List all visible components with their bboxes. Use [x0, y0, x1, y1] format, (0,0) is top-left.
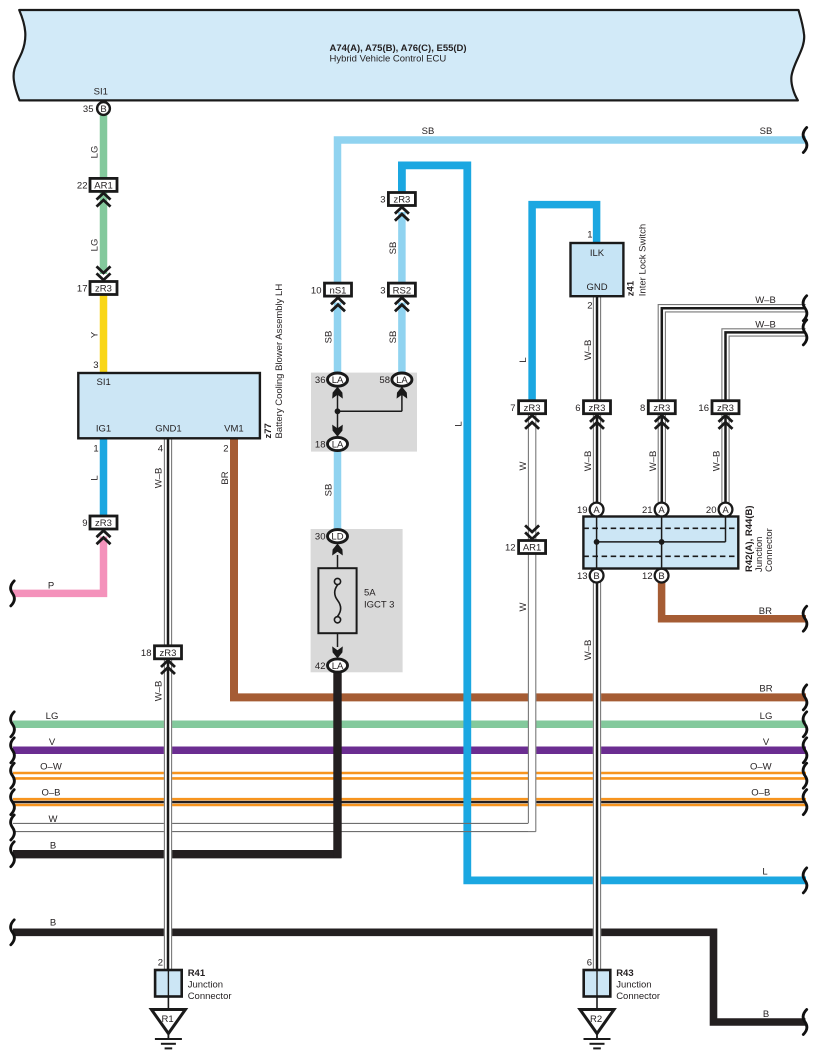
- svg-text:2: 2: [158, 958, 163, 969]
- svg-text:W–B: W–B: [712, 451, 723, 472]
- svg-text:7: 7: [510, 403, 515, 414]
- svg-text:zR3: zR3: [95, 284, 112, 295]
- svg-text:BR: BR: [759, 606, 772, 617]
- svg-text:AR1: AR1: [94, 181, 112, 192]
- svg-text:R43: R43: [616, 968, 633, 979]
- svg-text:IGCT 3: IGCT 3: [364, 600, 394, 611]
- svg-text:12: 12: [642, 571, 653, 582]
- svg-text:W: W: [518, 602, 529, 611]
- svg-text:20: 20: [706, 505, 717, 516]
- svg-text:zR3: zR3: [95, 518, 112, 529]
- svg-text:LG: LG: [760, 711, 773, 722]
- svg-text:18: 18: [315, 439, 326, 450]
- svg-text:B: B: [50, 918, 56, 929]
- svg-text:16: 16: [698, 403, 709, 414]
- svg-text:z77: z77: [263, 423, 274, 438]
- svg-text:W–B: W–B: [583, 340, 594, 361]
- svg-text:SB: SB: [324, 484, 335, 497]
- svg-text:LG: LG: [90, 146, 101, 159]
- svg-text:LD: LD: [331, 532, 343, 543]
- svg-text:6: 6: [587, 958, 592, 969]
- svg-text:W: W: [49, 814, 58, 825]
- svg-text:B: B: [658, 571, 664, 582]
- svg-text:1: 1: [587, 230, 592, 241]
- svg-text:SB: SB: [388, 242, 399, 255]
- svg-text:2: 2: [587, 301, 592, 312]
- svg-text:z41: z41: [626, 280, 637, 296]
- svg-text:LA: LA: [332, 661, 344, 672]
- svg-text:3: 3: [380, 285, 385, 296]
- svg-text:B: B: [50, 841, 56, 852]
- svg-text:BR: BR: [220, 471, 231, 484]
- svg-text:R1: R1: [162, 1014, 174, 1025]
- svg-text:zR3: zR3: [524, 403, 541, 414]
- svg-text:BR: BR: [759, 684, 772, 695]
- svg-text:O–B: O–B: [41, 788, 60, 799]
- svg-text:LG: LG: [90, 239, 101, 252]
- svg-text:zR3: zR3: [393, 195, 410, 206]
- svg-text:17: 17: [77, 284, 88, 295]
- svg-text:LA: LA: [396, 375, 408, 386]
- svg-text:VM1: VM1: [224, 424, 244, 435]
- svg-text:Battery Cooling Blower Assembl: Battery Cooling Blower Assembly LH: [274, 284, 285, 439]
- svg-text:AR1: AR1: [523, 543, 541, 554]
- svg-text:Junction: Junction: [616, 980, 651, 991]
- svg-text:A: A: [658, 505, 665, 516]
- svg-text:35: 35: [83, 104, 94, 115]
- svg-text:2: 2: [223, 444, 228, 455]
- svg-text:zR3: zR3: [717, 403, 734, 414]
- svg-text:12: 12: [505, 543, 516, 554]
- svg-text:A74(A), A75(B), A76(C), E55(D): A74(A), A75(B), A76(C), E55(D): [330, 43, 467, 54]
- svg-text:SB: SB: [324, 331, 335, 344]
- svg-text:Connector: Connector: [188, 991, 232, 1002]
- svg-text:3: 3: [380, 195, 385, 206]
- svg-text:L: L: [453, 421, 464, 426]
- svg-text:zR3: zR3: [160, 648, 177, 659]
- svg-text:8: 8: [640, 403, 645, 414]
- svg-text:Y: Y: [90, 331, 101, 338]
- svg-text:SI1: SI1: [94, 87, 108, 98]
- svg-text:Inter Lock Switch: Inter Lock Switch: [638, 224, 649, 296]
- svg-text:L: L: [762, 867, 767, 878]
- svg-text:L: L: [518, 357, 529, 362]
- svg-text:36: 36: [315, 375, 326, 386]
- svg-text:13: 13: [577, 571, 588, 582]
- svg-text:9: 9: [82, 518, 87, 529]
- svg-text:W–B: W–B: [755, 295, 776, 306]
- svg-text:18: 18: [141, 648, 152, 659]
- svg-text:SB: SB: [760, 126, 773, 137]
- svg-text:SI1: SI1: [97, 377, 111, 388]
- svg-text:Hybrid Vehicle Control ECU: Hybrid Vehicle Control ECU: [330, 54, 447, 65]
- svg-text:Connector: Connector: [764, 528, 775, 572]
- svg-text:SB: SB: [422, 126, 435, 137]
- svg-text:P: P: [48, 581, 54, 592]
- svg-text:5A: 5A: [364, 588, 376, 599]
- svg-text:W–B: W–B: [154, 681, 165, 702]
- svg-text:IG1: IG1: [96, 424, 111, 435]
- svg-text:W–B: W–B: [648, 451, 659, 472]
- svg-text:R2: R2: [590, 1014, 602, 1025]
- svg-text:W–B: W–B: [154, 468, 165, 489]
- svg-text:W: W: [518, 461, 529, 470]
- svg-text:R41: R41: [188, 968, 206, 979]
- svg-text:LA: LA: [332, 375, 344, 386]
- svg-text:ILK: ILK: [590, 248, 605, 259]
- svg-text:42: 42: [315, 661, 326, 672]
- svg-text:O–B: O–B: [751, 788, 770, 799]
- svg-text:V: V: [763, 737, 770, 748]
- svg-text:O–W: O–W: [750, 762, 772, 773]
- svg-text:nS1: nS1: [330, 285, 347, 296]
- svg-text:GND: GND: [586, 282, 607, 293]
- svg-text:6: 6: [575, 403, 580, 414]
- svg-text:LG: LG: [46, 711, 59, 722]
- svg-text:19: 19: [577, 505, 588, 516]
- svg-text:B: B: [593, 571, 599, 582]
- svg-text:Junction: Junction: [188, 980, 223, 991]
- svg-text:1: 1: [93, 444, 98, 455]
- svg-text:W–B: W–B: [583, 451, 594, 472]
- svg-text:Connector: Connector: [616, 991, 660, 1002]
- svg-text:22: 22: [77, 181, 88, 192]
- svg-text:10: 10: [311, 285, 322, 296]
- svg-text:O–W: O–W: [40, 762, 62, 773]
- svg-text:21: 21: [642, 505, 653, 516]
- svg-text:zR3: zR3: [653, 403, 670, 414]
- svg-text:A: A: [593, 505, 600, 516]
- svg-text:58: 58: [379, 375, 390, 386]
- svg-text:B: B: [763, 1009, 769, 1020]
- svg-text:30: 30: [315, 532, 326, 543]
- svg-text:A: A: [722, 505, 729, 516]
- svg-text:LA: LA: [332, 439, 344, 450]
- svg-text:SB: SB: [388, 331, 399, 344]
- svg-text:V: V: [49, 737, 56, 748]
- svg-text:zR3: zR3: [589, 403, 606, 414]
- svg-text:B: B: [100, 104, 106, 115]
- svg-text:4: 4: [158, 444, 163, 455]
- svg-text:3: 3: [93, 360, 98, 371]
- svg-text:L: L: [90, 475, 101, 480]
- svg-text:W–B: W–B: [755, 319, 776, 330]
- svg-text:RS2: RS2: [393, 285, 411, 296]
- svg-text:W–B: W–B: [583, 640, 594, 661]
- svg-text:GND1: GND1: [155, 424, 181, 435]
